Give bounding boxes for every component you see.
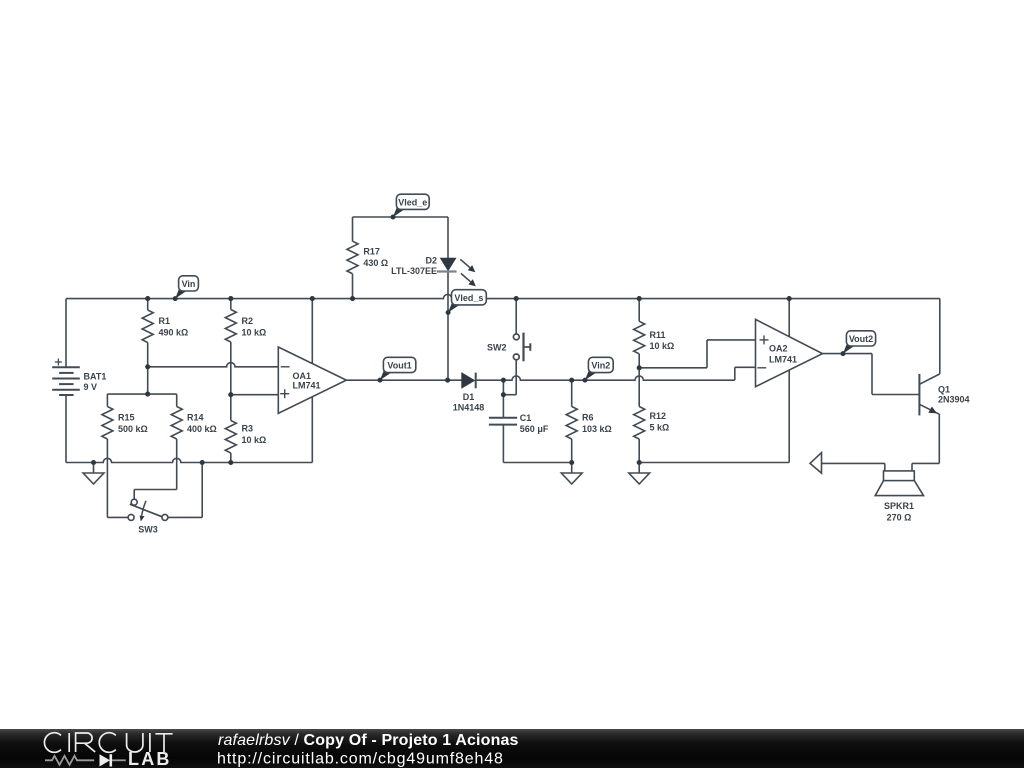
svg-text:LTL-307EE: LTL-307EE	[391, 266, 437, 276]
junction dots bottom rails	[91, 460, 96, 465]
switch SW3 SPDT	[134, 489, 177, 491]
CircuitLab logo resistor-diode glyph and LAB	[45, 756, 94, 765]
svg-text:10 kΩ: 10 kΩ	[242, 328, 267, 338]
junction dots top rail	[145, 296, 150, 301]
junction dot R1/R15/R14 row	[145, 392, 150, 397]
svg-text:R11: R11	[650, 330, 666, 340]
net flag Vled_e	[393, 206, 405, 217]
svg-text:SW2: SW2	[487, 342, 507, 352]
wire C1 top lead	[502, 380, 504, 418]
wire battery negative lead	[65, 395, 67, 463]
junction dot SW2/C1	[501, 392, 506, 397]
svg-text:Vout1: Vout1	[387, 361, 411, 371]
footer bar	[0, 729, 1024, 768]
resistor R14 400 k	[176, 394, 178, 406]
wire jog up to OA2 inverting input	[734, 367, 736, 380]
wire OA1 output row to D1	[346, 379, 461, 381]
svg-text:R12: R12	[650, 411, 667, 421]
svg-text:Vled_e: Vled_e	[398, 197, 427, 207]
op-amp OA1 LM741	[278, 347, 346, 413]
svg-text:R15: R15	[118, 413, 135, 423]
svg-text:Vin2: Vin2	[591, 361, 610, 371]
svg-text:rafaelrbsv / Copy Of - Projeto: rafaelrbsv / Copy Of - Projeto 1 Acionas	[218, 732, 519, 749]
wire C1 bottom lead and ground run to R6	[502, 425, 504, 463]
ground at battery rail	[93, 463, 95, 474]
resistor R12 5 k	[638, 368, 640, 407]
svg-text:SW3: SW3	[138, 524, 158, 534]
net flag Vin	[175, 288, 187, 299]
resistor R1 490 k	[147, 299, 149, 310]
svg-text:BAT1: BAT1	[84, 372, 107, 382]
wire speaker left terminal to net arrow	[884, 463, 886, 471]
wire SW2 lower lead and jog to C1 node	[515, 360, 517, 395]
capacitor C1 560 uF	[489, 417, 517, 419]
wire D1 cathode row to OA2 jog	[477, 376, 735, 380]
svg-text:R2: R2	[242, 316, 254, 326]
net flag Vout1	[380, 369, 392, 380]
wire R1 lower lead to R15/R14 row	[147, 343, 149, 395]
wire Q1 collector to top rail	[939, 299, 941, 374]
svg-text:490 kΩ: 490 kΩ	[159, 328, 189, 338]
net arrow at speaker return	[810, 453, 822, 474]
ground at R12	[638, 463, 640, 474]
svg-text:400 kΩ: 400 kΩ	[187, 424, 217, 434]
junction dot R1 inverting row	[145, 364, 150, 369]
net flag Vout2	[843, 343, 855, 354]
svg-text:LAB: LAB	[128, 749, 172, 768]
svg-text:R14: R14	[187, 413, 204, 423]
wire OA1 V- pin	[311, 397, 313, 463]
svg-text:103 kΩ: 103 kΩ	[582, 424, 612, 434]
wire OA1 V+ pin	[311, 299, 313, 364]
switch SW2 pushbutton	[515, 299, 517, 334]
svg-text:LM741: LM741	[293, 381, 321, 391]
junction dot R11/R12	[637, 365, 642, 370]
net flag Vled_s	[448, 302, 460, 313]
svg-text:R3: R3	[242, 424, 254, 434]
node OA1 inverting input row (R1 to OA1)	[148, 363, 279, 367]
svg-text:9 V: 9 V	[84, 382, 98, 392]
wire R2/R3 junction to OA1 + input	[231, 394, 278, 396]
wire R17/D2 top loop	[353, 216, 449, 218]
svg-text:2N3904: 2N3904	[938, 395, 970, 405]
wire R11/R12 node to OA2 + input jog	[639, 367, 707, 369]
resistor R17 430	[352, 217, 354, 241]
transistor Q1 2N3904	[918, 374, 920, 416]
resistor R15 500 k	[106, 394, 108, 406]
svg-text:560 μF: 560 μF	[520, 424, 549, 434]
CircuitLab logo wordmark CIRCUIT	[44, 733, 172, 753]
svg-text:10 kΩ: 10 kΩ	[242, 435, 267, 445]
svg-text:SPKR1: SPKR1	[884, 501, 914, 511]
battery BAT1 9 V	[52, 366, 80, 368]
svg-text:D1: D1	[463, 392, 475, 402]
resistor R3 10 k	[230, 395, 232, 421]
svg-text:Vled_s: Vled_s	[454, 293, 483, 303]
wire top rail	[66, 294, 940, 298]
svg-text:D2: D2	[425, 255, 437, 265]
wire battery positive lead	[65, 299, 67, 368]
LED D2 LTL-307EE	[441, 258, 456, 270]
wire right ground rail R12 to OA2 V-	[639, 462, 789, 464]
svg-text:Q1: Q1	[938, 384, 950, 394]
svg-text:R1: R1	[159, 316, 171, 326]
ground at R6/C1	[571, 463, 573, 474]
svg-text:5 kΩ: 5 kΩ	[650, 423, 670, 433]
op-amp OA2 LM741	[756, 319, 823, 386]
junction dot R2/R3/OA1+	[228, 392, 233, 397]
resistor R11 10 k	[638, 299, 640, 322]
speaker SPKR1 270	[884, 471, 915, 481]
svg-text:430 Ω: 430 Ω	[363, 258, 388, 268]
wire OA2 V+ pin	[788, 299, 790, 337]
junction dots output row	[445, 378, 450, 383]
wire bottom-left ground rail	[66, 458, 312, 462]
diode D1 1N4148	[462, 373, 475, 388]
svg-text:LM741: LM741	[769, 355, 797, 365]
svg-text:Vin: Vin	[182, 279, 196, 289]
svg-text:500 kΩ: 500 kΩ	[118, 424, 148, 434]
wire R15/R14 top row	[107, 393, 176, 395]
wire OA2 V- pin	[788, 370, 790, 463]
svg-text:Vout2: Vout2	[849, 334, 873, 344]
svg-text:C1: C1	[520, 413, 532, 423]
svg-text:OA1: OA1	[293, 371, 312, 381]
svg-text:http://circuitlab.com/cbg49umf: http://circuitlab.com/cbg49umf8eh48	[217, 751, 504, 768]
wire D2 cathode down to output row	[447, 217, 449, 258]
net flag Vin2	[585, 369, 597, 380]
resistor R6 103 k	[571, 380, 573, 406]
wire Q1 emitter to speaker	[938, 414, 940, 463]
svg-text:R6: R6	[582, 413, 594, 423]
svg-text:OA2: OA2	[769, 344, 788, 354]
svg-text:10 kΩ: 10 kΩ	[650, 341, 675, 351]
svg-text:R17: R17	[363, 247, 380, 257]
wire OA2 output	[823, 353, 873, 355]
svg-text:1N4148: 1N4148	[453, 403, 485, 413]
resistor R2 10 k	[230, 299, 232, 310]
svg-text:270 Ω: 270 Ω	[887, 512, 912, 522]
